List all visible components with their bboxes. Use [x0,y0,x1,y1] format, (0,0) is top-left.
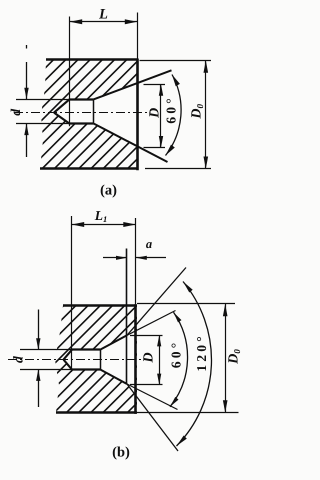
60deg cone A lower line [94,124,168,162]
60deg cone B lower line [100,369,127,384]
60deg cone B upper line [100,335,127,350]
caption (a) [101,184,117,197]
120deg chamfer line B upper [127,268,186,336]
a dimension line left tail [103,257,127,259]
label 60deg (b) [172,344,181,368]
hatching section B [0,302,250,417]
d dimension line B upper [38,310,40,350]
d dimension line lower [26,124,28,157]
L1 right extension line [135,218,137,304]
D lower extension line B [130,384,163,386]
120deg angle arc B [177,282,212,447]
workpiece B top edge [63,304,137,307]
workpiece B bottom edge [56,411,137,414]
D0 upper extension line B [137,303,235,305]
label D [149,108,158,118]
centerline A [14,112,151,114]
label D0 (b) [228,349,240,364]
pilot hole A top edge [70,98,94,100]
D0 lower extension line [145,168,211,170]
120deg chamfer line B lower [127,384,178,451]
pilot hole B bottom edge [72,368,100,370]
pilot hole B top edge [72,348,100,350]
workpiece A top edge [46,58,138,61]
d upper extension line B [20,349,72,351]
label a [146,242,152,248]
label 60deg [167,99,176,123]
pilot hole A bottom edge [70,122,94,124]
D0 lower extension line B [136,412,239,414]
D upper extension line [144,84,166,86]
a left extension / 60deg cone mouth line [126,249,128,385]
L dimension line [70,21,138,23]
d lower extension line B [20,369,72,371]
label d [11,109,20,116]
center hole B outline [64,350,72,360]
label D0 [191,104,203,119]
d dimension line upper tail tick [26,45,28,49]
d dimension line upper [26,62,28,99]
label d (b) [13,356,22,363]
D0 dimension line [205,60,207,169]
L1 left extension line [71,216,73,372]
d dimension line B lower [38,369,40,407]
D dimension line [160,84,162,147]
cone base B [100,350,102,370]
d upper extension line [16,99,70,101]
60deg angle arc B [170,312,188,407]
cone base A [93,99,95,123]
L1 dimension line [72,224,136,226]
L left extension line [69,17,71,127]
caption (b) [113,446,129,459]
center hole A outline [54,99,70,112]
60deg angle arc A [166,75,182,156]
D dimension line B [159,335,161,384]
L right extension line [137,13,139,59]
a dimension line right tail [136,257,166,259]
60deg extension line B upper [127,311,176,336]
D upper extension line B [130,335,163,337]
workpiece A right face [136,59,139,170]
label L [99,9,107,18]
centerline B [8,359,152,361]
60deg cone A upper line [94,70,172,99]
D0 dimension line B [225,304,227,413]
label 120deg (b) [197,337,206,371]
hatching section A [0,57,251,172]
d lower extension line [16,123,70,125]
workpiece B right face [134,304,137,414]
label L1 [95,211,107,222]
60deg extension line B lower [127,384,178,410]
D0 upper extension line [140,60,212,62]
label D (b) [143,353,152,363]
D lower extension line [144,147,166,149]
workpiece A bottom edge [40,167,138,170]
